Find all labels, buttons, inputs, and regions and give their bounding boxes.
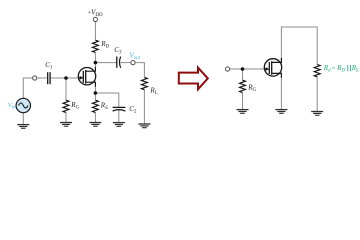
svg-text:=: = [332,65,336,72]
